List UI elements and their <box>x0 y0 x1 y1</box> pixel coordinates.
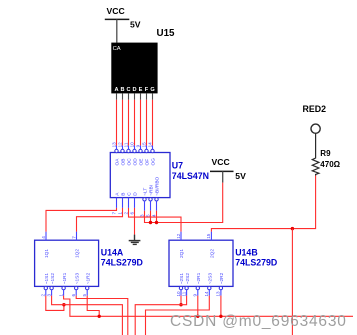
svg-text:5V: 5V <box>130 19 141 29</box>
U14A top pin numbers 4 7 <box>41 236 77 239</box>
svg-text:CSDN @m0_69634630: CSDN @m0_69634630 <box>170 313 347 330</box>
svg-text:6: 6 <box>129 212 134 215</box>
svg-text:470Ω: 470Ω <box>320 160 340 169</box>
svg-text:R9: R9 <box>320 149 331 158</box>
svg-text:~RBI: ~RBI <box>149 185 155 196</box>
svg-text:9: 9 <box>135 144 140 147</box>
U7 bottom pin numbers 7 1 2 6 / 3 5 4 <box>111 212 156 218</box>
svg-text:13: 13 <box>111 142 116 148</box>
wire U7 B to U14A 1Q2 <box>77 208 123 232</box>
svg-text:9: 9 <box>193 294 198 297</box>
U14B inner labels ~2S1 ~2S2 ~2R1 ~2S3 ~2R2 <box>179 272 225 284</box>
latch U14A 74LS279D body <box>35 232 99 297</box>
svg-text:74LS279D: 74LS279D <box>101 258 143 268</box>
wire ~1S3 to bottom edge <box>76 296 128 335</box>
svg-text:C: C <box>126 87 130 93</box>
wire U15 C to U7 OC <box>128 100 130 146</box>
svg-text:OB: OB <box>121 159 127 166</box>
wire U15 B to U7 OB <box>122 100 124 146</box>
svg-text:12: 12 <box>117 142 122 148</box>
svg-text:5: 5 <box>82 294 87 297</box>
svg-text:5V: 5V <box>235 171 246 181</box>
svg-text:3: 3 <box>46 294 51 297</box>
svg-text:1Q1: 1Q1 <box>44 249 50 258</box>
svg-text:OC: OC <box>127 158 133 166</box>
svg-text:74LS279D: 74LS279D <box>235 258 277 268</box>
svg-text:6: 6 <box>71 294 76 297</box>
svg-text:~1S3: ~1S3 <box>74 273 80 285</box>
display pin stubs (gray) <box>117 93 153 99</box>
svg-text:OG: OG <box>151 158 157 166</box>
svg-text:12: 12 <box>176 233 181 239</box>
wire U7 D to ground <box>134 208 136 235</box>
U14A bottom pin numbers 2 3 1 6 5 <box>41 294 87 297</box>
svg-text:7: 7 <box>71 236 76 239</box>
ground <box>129 235 141 245</box>
svg-text:~2S1: ~2S1 <box>179 273 185 285</box>
wire ~1R2 to reset bus <box>87 296 99 317</box>
svg-text:G: G <box>150 87 154 93</box>
junction <box>149 221 152 224</box>
svg-text:11: 11 <box>181 291 186 296</box>
wire U15 F to U7 OF <box>146 100 148 146</box>
svg-text:C: C <box>127 192 133 196</box>
U14B bottom pin numbers 10 11 9 14 13 <box>176 291 221 297</box>
svg-text:~1S1: ~1S1 <box>44 273 50 285</box>
wire U7 C to U14B 2Q1 <box>129 208 182 232</box>
wire ~1S1 to S-net <box>46 296 64 311</box>
svg-text:VCC: VCC <box>107 6 125 16</box>
svg-text:E: E <box>139 87 143 93</box>
svg-text:F: F <box>145 87 149 93</box>
svg-text:~BI/RBO: ~BI/RBO <box>155 176 161 195</box>
svg-text:B: B <box>120 87 124 93</box>
junction <box>219 315 222 318</box>
wire U15 G to U7 OG <box>152 100 154 146</box>
svg-text:B: B <box>121 193 127 196</box>
U7 top pin numbers 13 12 11 10 9 15 14 <box>111 142 152 148</box>
svg-text:15: 15 <box>206 233 211 239</box>
svg-text:~2R1: ~2R1 <box>196 272 202 284</box>
svg-text:14: 14 <box>204 291 209 297</box>
wire ~2R2 to reset bus <box>220 296 222 317</box>
wire U7 A to U14A 1Q1 <box>46 208 117 232</box>
svg-text:1: 1 <box>58 294 63 297</box>
svg-text:7: 7 <box>111 212 116 215</box>
svg-text:74LS47N: 74LS47N <box>172 171 209 181</box>
svg-text:A: A <box>114 87 118 93</box>
svg-text:RED2: RED2 <box>303 104 327 114</box>
svg-text:13: 13 <box>216 291 221 297</box>
svg-text:~2R2: ~2R2 <box>219 272 225 284</box>
inversion bubbles on outputs OA-OG <box>115 149 154 152</box>
svg-text:CA: CA <box>113 46 121 52</box>
svg-text:U14A: U14A <box>101 248 124 258</box>
junction <box>155 221 158 224</box>
wire ~2R1 to reset bus <box>197 296 199 317</box>
probe RED2 <box>303 104 327 157</box>
wire U15 D to U7 OD <box>134 100 136 146</box>
U14A top pin stubs <box>46 232 77 241</box>
junction <box>98 315 101 318</box>
U14B bottom pin stubs <box>181 290 221 296</box>
display U15 (7-segment, common anode) <box>111 28 175 93</box>
svg-text:2Q2: 2Q2 <box>210 249 216 258</box>
U14A bottom pin stubs <box>46 290 87 296</box>
U14A inner labels ~1S1 ~1S2 ~1R1 ~1S3 ~1R2 <box>44 272 91 284</box>
U14B top pin stubs <box>181 232 211 241</box>
U14A bottom bubbles <box>44 286 89 289</box>
wire ~2S3 to bottom edge <box>146 296 210 335</box>
svg-text:OF: OF <box>145 159 151 166</box>
svg-text:2: 2 <box>41 294 46 297</box>
wire VCC to ~LT ~RBI ~BI/RBO <box>145 183 223 223</box>
U14B inner labels 2Q1 2Q2 <box>179 249 215 258</box>
power VCC (right, 5V to U7 control pins) <box>210 157 246 183</box>
wire ~1R1 to reset bus <box>64 296 353 317</box>
U7 top pin stubs (blue) <box>117 146 153 150</box>
svg-text:VCC: VCC <box>212 157 230 167</box>
svg-text:~2S3: ~2S3 <box>208 273 214 285</box>
wire ~2S1 drop <box>180 296 182 305</box>
svg-text:~1R2: ~1R2 <box>85 272 91 284</box>
svg-text:U15: U15 <box>157 28 176 39</box>
svg-text:2Q1: 2Q1 <box>179 249 185 258</box>
svg-text:D: D <box>132 87 136 93</box>
U7 bottom pin stubs A B C D <box>117 198 157 211</box>
latch U14B 74LS279D body <box>169 232 233 297</box>
svg-text:~2S2: ~2S2 <box>185 273 191 285</box>
wire VCC to U15 CA <box>116 19 118 42</box>
svg-text:1: 1 <box>117 212 122 215</box>
junction <box>196 315 199 318</box>
wire junction to bottom edge <box>291 229 293 335</box>
inversion bubbles ~LT ~RBI ~BI/RBO <box>143 198 158 201</box>
svg-text:~1S2: ~1S2 <box>50 273 56 285</box>
svg-text:10: 10 <box>176 291 181 297</box>
U14B top pin numbers 12 15 <box>176 233 211 239</box>
wire ~RBI drop <box>150 211 152 223</box>
wire ~1S2 net to bottom edge <box>52 296 123 335</box>
wire ~2S2 net to bottom edge <box>135 296 186 335</box>
resistor R9 470Ω <box>312 149 340 175</box>
svg-text:OE: OE <box>139 159 145 166</box>
junction <box>179 303 182 306</box>
svg-text:15: 15 <box>141 142 146 148</box>
wire ~BI/RBO drop <box>156 211 158 223</box>
svg-text:~1R1: ~1R1 <box>62 272 68 284</box>
U14A inner labels 1Q1 1Q2 <box>44 249 80 258</box>
op-amp/decoder U7 74LS47N body <box>110 149 170 201</box>
svg-text:U7: U7 <box>172 160 183 170</box>
svg-text:10: 10 <box>129 142 134 148</box>
junction <box>291 227 294 230</box>
svg-text:OA: OA <box>115 158 121 166</box>
svg-text:OD: OD <box>133 158 139 166</box>
power VCC (top, 5V supply for display) <box>105 6 141 29</box>
svg-text:U14B: U14B <box>235 248 258 258</box>
U14B bottom bubbles <box>179 286 222 289</box>
svg-text:14: 14 <box>147 142 152 148</box>
svg-text:4: 4 <box>41 236 46 239</box>
wire R9 to 2Q2 line <box>211 176 315 232</box>
U7 inner labels A B C D <box>115 192 139 196</box>
wire U15 E to U7 OE <box>140 100 142 146</box>
svg-text:11: 11 <box>123 142 128 147</box>
svg-text:1Q2: 1Q2 <box>75 249 81 258</box>
wire U15 A to U7 OA <box>116 100 118 146</box>
U7 inner labels ~LT ~RBI ~BI/RBO <box>143 176 161 195</box>
svg-text:~LT: ~LT <box>143 188 149 196</box>
U7 inner labels OA..OG <box>115 158 157 166</box>
svg-text:D: D <box>133 192 139 196</box>
junction <box>62 303 65 306</box>
svg-text:2: 2 <box>123 212 128 215</box>
